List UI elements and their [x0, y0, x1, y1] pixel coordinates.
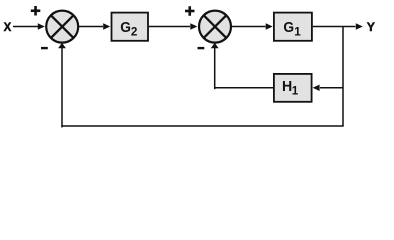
wire up into S1 with arrowhead: [58, 43, 66, 127]
wire G1 to output Y with arrowhead: [313, 23, 363, 29]
outer feedback bottom wire: [61, 125, 343, 127]
minus sign at S2: [198, 47, 205, 49]
plus sign at S2: [185, 6, 195, 16]
summing junction S1 (circle with cross): [46, 11, 78, 43]
minus sign at S1: [41, 47, 48, 49]
block H1: [274, 74, 312, 102]
wire branch to H1 with arrowhead: [313, 85, 343, 91]
block G2: [112, 13, 149, 41]
svg-text:1: 1: [294, 26, 301, 39]
plus sign at S1: [31, 6, 41, 16]
svg-text:H: H: [282, 78, 292, 95]
wire S2 to G1 with arrowhead: [232, 23, 273, 29]
wire G2 to summing junction S2 with arrowhead: [149, 23, 197, 29]
svg-text:1: 1: [292, 85, 299, 98]
wire H1 output going left: [215, 87, 273, 89]
wire X to summing junction S1 with arrowhead: [13, 23, 45, 29]
svg-text:G: G: [120, 19, 131, 36]
wire up into S2 with arrowhead: [211, 43, 219, 89]
summing junction S2 (circle with cross): [199, 11, 231, 43]
svg-text:2: 2: [131, 26, 138, 39]
svg-text:G: G: [283, 19, 294, 36]
wire S1 to G2 with arrowhead: [79, 23, 110, 29]
svg-text:Y: Y: [367, 20, 375, 34]
block G1: [274, 13, 312, 41]
takeoff branch wire going down from output line: [342, 27, 344, 127]
svg-text:X: X: [4, 20, 12, 34]
